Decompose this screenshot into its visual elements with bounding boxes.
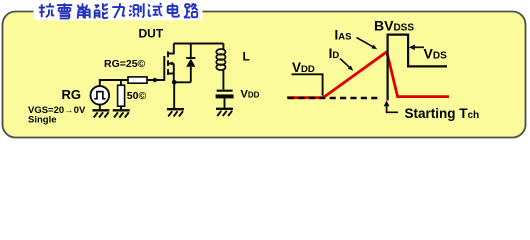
svg-text:RG: RG (62, 87, 82, 102)
svg-text:L: L (243, 50, 250, 64)
svg-text:RG=25©: RG=25© (104, 58, 146, 70)
svg-text:Single: Single (28, 115, 57, 126)
svg-text:50©: 50© (127, 90, 147, 102)
svg-text:DUT: DUT (139, 27, 164, 41)
svg-text:VDD: VDD (241, 88, 260, 100)
